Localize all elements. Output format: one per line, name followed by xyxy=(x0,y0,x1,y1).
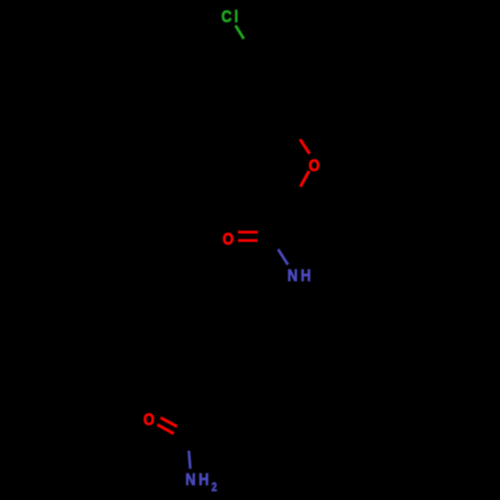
svg-text:H: H xyxy=(199,471,209,489)
svg-text:H: H xyxy=(301,267,311,285)
svg-text:O: O xyxy=(223,230,234,248)
svg-text:C: C xyxy=(221,8,231,26)
svg-text:l: l xyxy=(234,8,238,26)
svg-text:O: O xyxy=(143,411,154,429)
svg-text:2: 2 xyxy=(212,481,217,494)
svg-text:N: N xyxy=(185,471,195,489)
svg-text:O: O xyxy=(309,157,320,175)
svg-text:N: N xyxy=(287,267,297,285)
